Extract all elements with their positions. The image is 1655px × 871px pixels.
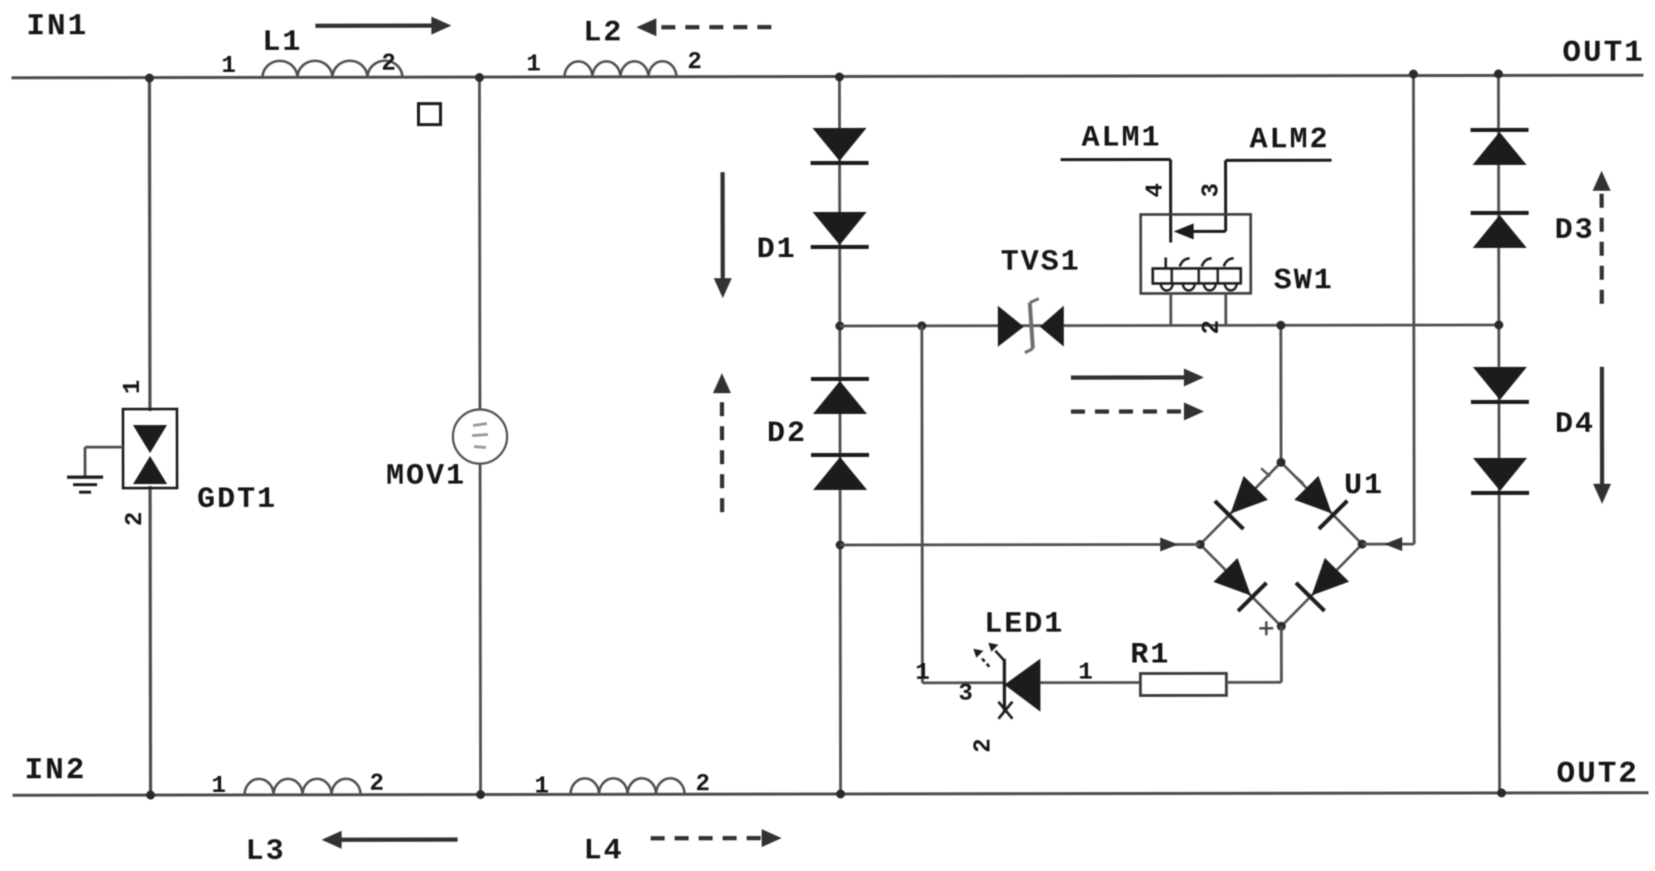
bridge ac tick marks bbox=[1261, 468, 1303, 483]
svg-text:GDT1: GDT1 bbox=[197, 483, 277, 517]
node IN1 label bbox=[26, 9, 88, 44]
svg-text:2: 2 bbox=[970, 738, 997, 752]
D4 ref label bbox=[1555, 408, 1595, 442]
wire TVS row bbox=[840, 325, 1499, 326]
L2 pin 1 label bbox=[526, 51, 540, 78]
arrow D2 surge path (dashed up) bbox=[713, 373, 731, 512]
junction top rail x1414 bbox=[1409, 70, 1418, 79]
svg-text:2: 2 bbox=[381, 51, 395, 78]
svg-text:D4: D4 bbox=[1555, 408, 1595, 442]
wire D3-D4 column bbox=[1498, 74, 1499, 793]
L1 pin 2 label bbox=[381, 51, 395, 78]
svg-text:D3: D3 bbox=[1555, 214, 1595, 248]
svg-text:LED1: LED1 bbox=[984, 608, 1064, 642]
svg-text:ALM2: ALM2 bbox=[1250, 123, 1330, 157]
D3 ref label bbox=[1555, 214, 1595, 248]
arrow TVS path (dashed right) bbox=[1071, 402, 1204, 420]
D2 ref label bbox=[767, 417, 807, 451]
GDT1 pin 2 label bbox=[122, 512, 149, 526]
wire top rail IN1-OUT1 bbox=[11, 75, 1643, 78]
LED1 pin 2 label bbox=[970, 738, 997, 752]
diode D4b bbox=[1471, 458, 1529, 493]
L3 pin 1 label bbox=[212, 773, 226, 800]
inductor L1 winding bbox=[262, 61, 402, 78]
L3 pin 2 label bbox=[370, 771, 384, 798]
bridge node left bbox=[1196, 540, 1205, 549]
svg-text:D2: D2 bbox=[767, 417, 807, 451]
junction top rail / D1 column bbox=[835, 72, 844, 81]
diode D3b bbox=[1471, 213, 1529, 248]
led LED1 bbox=[998, 659, 1040, 719]
SW1 wiper arrow bbox=[1174, 223, 1226, 239]
junction bottom rail / D2 column bbox=[836, 789, 845, 798]
wire D2 to bridge left vertex bbox=[840, 543, 1200, 546]
diode D2a bbox=[811, 379, 869, 414]
SW1 coil bbox=[1153, 257, 1241, 290]
node IN2 label bbox=[24, 753, 86, 788]
ALM2 net label bbox=[1250, 123, 1330, 157]
LED1 ref label bbox=[984, 608, 1064, 642]
inductor L3 winding bbox=[245, 779, 361, 795]
wire LED branch bbox=[922, 326, 1005, 683]
svg-text:OUT1: OUT1 bbox=[1562, 36, 1644, 71]
svg-text:D1: D1 bbox=[757, 233, 797, 267]
L4 pin 2 label bbox=[696, 771, 710, 798]
LED branch pin 1 label bbox=[915, 660, 929, 687]
GDT1 pin 1 label bbox=[120, 380, 147, 394]
wire LED1 to R1 bbox=[1040, 681, 1140, 684]
arrow D4 (solid down) bbox=[1593, 367, 1611, 504]
node OUT2 label bbox=[1557, 757, 1639, 792]
svg-text:IN1: IN1 bbox=[26, 9, 88, 44]
SW1 ref label bbox=[1274, 264, 1334, 298]
diode D4a bbox=[1471, 367, 1529, 402]
junction bottom rail / GDT column bbox=[146, 791, 155, 800]
MOV1 ref label bbox=[386, 460, 466, 494]
svg-text:TVS1: TVS1 bbox=[1001, 246, 1081, 280]
SW1 pin 4 label bbox=[1143, 183, 1170, 197]
ground bbox=[67, 477, 103, 492]
svg-text:MOV1: MOV1 bbox=[386, 460, 466, 494]
bridge U1 diode bottom-left bbox=[1213, 558, 1266, 611]
bridge node bottom bbox=[1277, 622, 1286, 631]
marker square bbox=[418, 104, 440, 125]
diode D1a bbox=[811, 128, 869, 163]
arrowhead into bridge left bbox=[1160, 537, 1178, 551]
LED1 pin 3 label bbox=[958, 681, 972, 708]
gas discharge tube GDT1 body bbox=[123, 409, 177, 488]
GDT1 ref label bbox=[197, 483, 277, 517]
diode D1b bbox=[811, 212, 869, 247]
wire GDT1 ground lead bbox=[85, 447, 123, 476]
L4 pin 1 label bbox=[535, 773, 549, 800]
arrow L1 forward current bbox=[315, 17, 451, 35]
node OUT1 label bbox=[1562, 36, 1644, 71]
junction bottom rail / D4 column bbox=[1497, 788, 1506, 797]
svg-text:3: 3 bbox=[1199, 183, 1226, 197]
SW1 pin 2 label bbox=[1199, 320, 1226, 334]
junction LED branch bbox=[917, 321, 926, 330]
bridge node top bbox=[1277, 458, 1286, 467]
wire R1 to bridge bottom bbox=[1226, 626, 1281, 682]
svg-text:1: 1 bbox=[212, 773, 226, 800]
transient suppressor TVS1 bbox=[998, 299, 1064, 353]
wire ALM1 lead bbox=[1061, 159, 1171, 242]
arrow L2 reverse current (dashed) bbox=[636, 18, 771, 36]
wire D1-D2 column bbox=[839, 77, 840, 794]
diode D2b bbox=[811, 455, 869, 490]
svg-text:4: 4 bbox=[1143, 183, 1170, 197]
wire GDT1 column lower bbox=[148, 486, 152, 795]
svg-text:SW1: SW1 bbox=[1274, 264, 1334, 298]
arrow D3 (dashed up) bbox=[1593, 171, 1611, 304]
junction top rail / D3 column bbox=[1494, 69, 1503, 78]
junction top rail / GDT column bbox=[145, 74, 154, 83]
svg-text:3: 3 bbox=[958, 681, 972, 708]
svg-text:L4: L4 bbox=[584, 834, 624, 868]
bridge U1 frame bbox=[1200, 462, 1362, 626]
L4 ref label bbox=[584, 834, 624, 868]
wire ALM2 lead bbox=[1226, 160, 1332, 231]
junction D1/TVS row bbox=[835, 321, 844, 330]
svg-text:2: 2 bbox=[122, 512, 149, 526]
switch SW1 body bbox=[1141, 214, 1251, 293]
junction TVS row / bridge feed bbox=[1276, 321, 1285, 330]
ALM1 net label bbox=[1082, 121, 1162, 155]
arrowhead into bridge right bbox=[1384, 537, 1402, 551]
U1 ref label bbox=[1344, 469, 1384, 503]
svg-text:R1: R1 bbox=[1130, 638, 1170, 672]
bridge U1 diode top-right bbox=[1294, 476, 1347, 529]
svg-text:1: 1 bbox=[221, 53, 235, 80]
arrow L4 (dashed right) bbox=[651, 829, 782, 847]
arrow L3 (solid left) bbox=[322, 831, 458, 849]
arrow TVS path (solid right) bbox=[1071, 368, 1204, 386]
junction top rail / MOV column bbox=[475, 73, 484, 82]
bridge plus mark bbox=[1259, 621, 1273, 635]
bridge node right bbox=[1358, 540, 1367, 549]
LED1 pin 1 (right) label bbox=[1078, 660, 1092, 687]
inductor L2 winding bbox=[564, 61, 676, 77]
resistor R1 bbox=[1140, 673, 1226, 695]
D1 ref label bbox=[757, 233, 797, 267]
junction bottom rail / MOV column bbox=[476, 790, 485, 799]
varistor MOV1 body bbox=[453, 410, 507, 464]
junction TVS row / D3 column bbox=[1494, 320, 1503, 329]
svg-text:U1: U1 bbox=[1344, 469, 1384, 503]
svg-text:2: 2 bbox=[696, 771, 710, 798]
svg-text:2: 2 bbox=[687, 49, 701, 76]
svg-text:1: 1 bbox=[535, 773, 549, 800]
svg-text:1: 1 bbox=[915, 660, 929, 687]
svg-text:L3: L3 bbox=[246, 835, 286, 869]
wire GDT1 column upper bbox=[148, 78, 152, 411]
L2 pin 2 label bbox=[687, 49, 701, 76]
junction D2/bridge row bbox=[836, 540, 845, 549]
wire MOV1 column upper bbox=[478, 78, 481, 411]
svg-text:2: 2 bbox=[1199, 320, 1226, 334]
svg-text:OUT2: OUT2 bbox=[1557, 757, 1639, 792]
svg-text:1: 1 bbox=[120, 380, 147, 394]
svg-text:1: 1 bbox=[1078, 660, 1092, 687]
bridge U1 diode bottom-right bbox=[1296, 558, 1349, 611]
TVS1 ref label bbox=[1001, 246, 1081, 280]
svg-text:IN2: IN2 bbox=[24, 753, 86, 788]
diode D3a bbox=[1471, 130, 1529, 165]
L1 pin 1 label bbox=[221, 53, 235, 80]
L2 ref label bbox=[583, 16, 623, 50]
wire SW1 pin4 stub bbox=[1169, 293, 1172, 325]
L3 ref label bbox=[246, 835, 286, 869]
R1 ref label bbox=[1130, 638, 1170, 672]
svg-text:ALM1: ALM1 bbox=[1082, 121, 1162, 155]
svg-text:L2: L2 bbox=[583, 16, 623, 50]
SW1 pin 3 label bbox=[1199, 183, 1226, 197]
svg-text:1: 1 bbox=[526, 51, 540, 78]
wire bottom rail IN2-OUT2 bbox=[13, 793, 1649, 796]
LED1 emission arrows bbox=[973, 643, 1004, 667]
wire OUT1 to bridge right bbox=[1361, 74, 1414, 544]
arrow D1 surge path (solid down) bbox=[714, 172, 732, 298]
L1 ref label bbox=[262, 26, 302, 60]
bridge U1 diode top-left bbox=[1215, 476, 1268, 529]
svg-text:L1: L1 bbox=[262, 26, 302, 60]
inductor L4 winding bbox=[571, 778, 685, 794]
wire bridge feed bbox=[1279, 325, 1282, 462]
wire MOV1 column lower bbox=[479, 464, 482, 795]
wire SW1 pin2 stub bbox=[1224, 293, 1227, 325]
svg-text:2: 2 bbox=[370, 771, 384, 798]
